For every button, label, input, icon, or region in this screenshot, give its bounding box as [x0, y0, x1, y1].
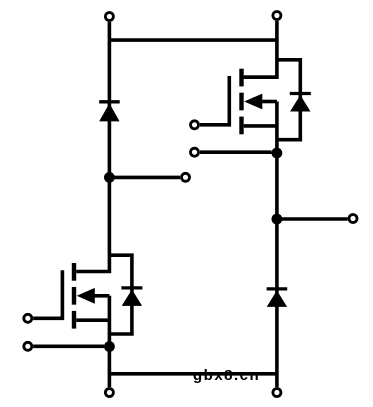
- Q2 channel bar middle (body): [72, 287, 76, 305]
- Q1 body arrow line: [261, 100, 277, 104]
- diode DQ1 (anti-parallel with Q1): [277, 60, 311, 140]
- wire bottom rail: [109, 372, 277, 376]
- terminal 8 Q2 source sense: [24, 342, 32, 350]
- Q1 body arrowhead: [244, 94, 262, 110]
- Q1 gate wire and gate electrode: [200, 76, 229, 125]
- wire right source vertical (Q1 source down to terminal 10): [275, 102, 279, 388]
- Q2 channel bar bottom (source): [72, 311, 76, 329]
- wire Q1 source sense: [200, 150, 272, 154]
- junction dot node A (left vertical / mid-left tap): [104, 172, 115, 183]
- Q2 body arrowhead: [77, 288, 95, 304]
- Q1 channel bar middle (body): [239, 93, 243, 111]
- terminal 10 bottom-right: [273, 389, 281, 397]
- Q1 source bar: [244, 124, 277, 128]
- Q2 source bar: [76, 318, 109, 322]
- terminal 6 mid-right: [349, 215, 357, 223]
- D1 triangle: [99, 103, 119, 121]
- terminal 9 bottom-left: [105, 389, 113, 397]
- terminal 5 Q1 source sense: [191, 148, 199, 156]
- Q1 channel bar top (drain): [239, 69, 243, 87]
- wire top rail: [109, 38, 277, 42]
- wire node A branch to mid-left terminal: [109, 176, 180, 180]
- wire node B branch to mid-right terminal: [277, 217, 348, 221]
- diode D2 bottom-right (on right vertical): [267, 289, 288, 307]
- terminal 3 mid-left: [182, 173, 190, 181]
- junction dot node B (Q2 source junction): [104, 341, 115, 352]
- terminal 2 top-right: [273, 12, 281, 20]
- Q1 drain bar: [244, 75, 277, 79]
- Q1 channel bar bottom (source): [239, 117, 243, 135]
- terminal 1 top-left: [105, 13, 113, 21]
- DQ1 cathode bar: [290, 92, 311, 95]
- D1 cathode bar: [99, 100, 120, 103]
- wire Q2 source sense: [33, 344, 104, 348]
- wire right vertical (drain leg of Q1 from terminal 2 to drain bar): [244, 21, 277, 77]
- terminal 7 Q2 gate: [24, 314, 32, 322]
- D2 triangle: [267, 290, 287, 307]
- watermark text gbx8.cn: [193, 367, 260, 385]
- Q2 channel bar top (drain): [72, 263, 76, 281]
- terminal 4 Q1 gate: [191, 121, 199, 129]
- diode DQ2 (anti-parallel with Q2): [109, 255, 142, 334]
- diode D1 top-left (on left vertical): [99, 102, 120, 122]
- DQ2 branch wire: [109, 255, 131, 334]
- Q2 body arrow line: [94, 294, 110, 298]
- DQ2 triangle: [122, 289, 142, 306]
- wire left source vertical (Q2 source down to terminal 9): [108, 296, 112, 387]
- DQ2 cathode bar: [121, 286, 142, 289]
- junction dot node C (Q1 source junction): [272, 148, 283, 159]
- DQ1 branch wire: [277, 60, 300, 140]
- D2 cathode bar: [267, 287, 288, 290]
- junction dot node D (right vertical / mid-right tap): [272, 214, 283, 225]
- wire left vertical (drain leg of Q2 from terminal 1 to drain bar): [76, 22, 109, 272]
- MOSFET Q2 bottom-left: [33, 263, 109, 329]
- Q2 gate wire and gate electrode: [33, 270, 62, 318]
- MOSFET Q1 top-right: [200, 69, 277, 135]
- DQ1 triangle: [290, 95, 310, 112]
